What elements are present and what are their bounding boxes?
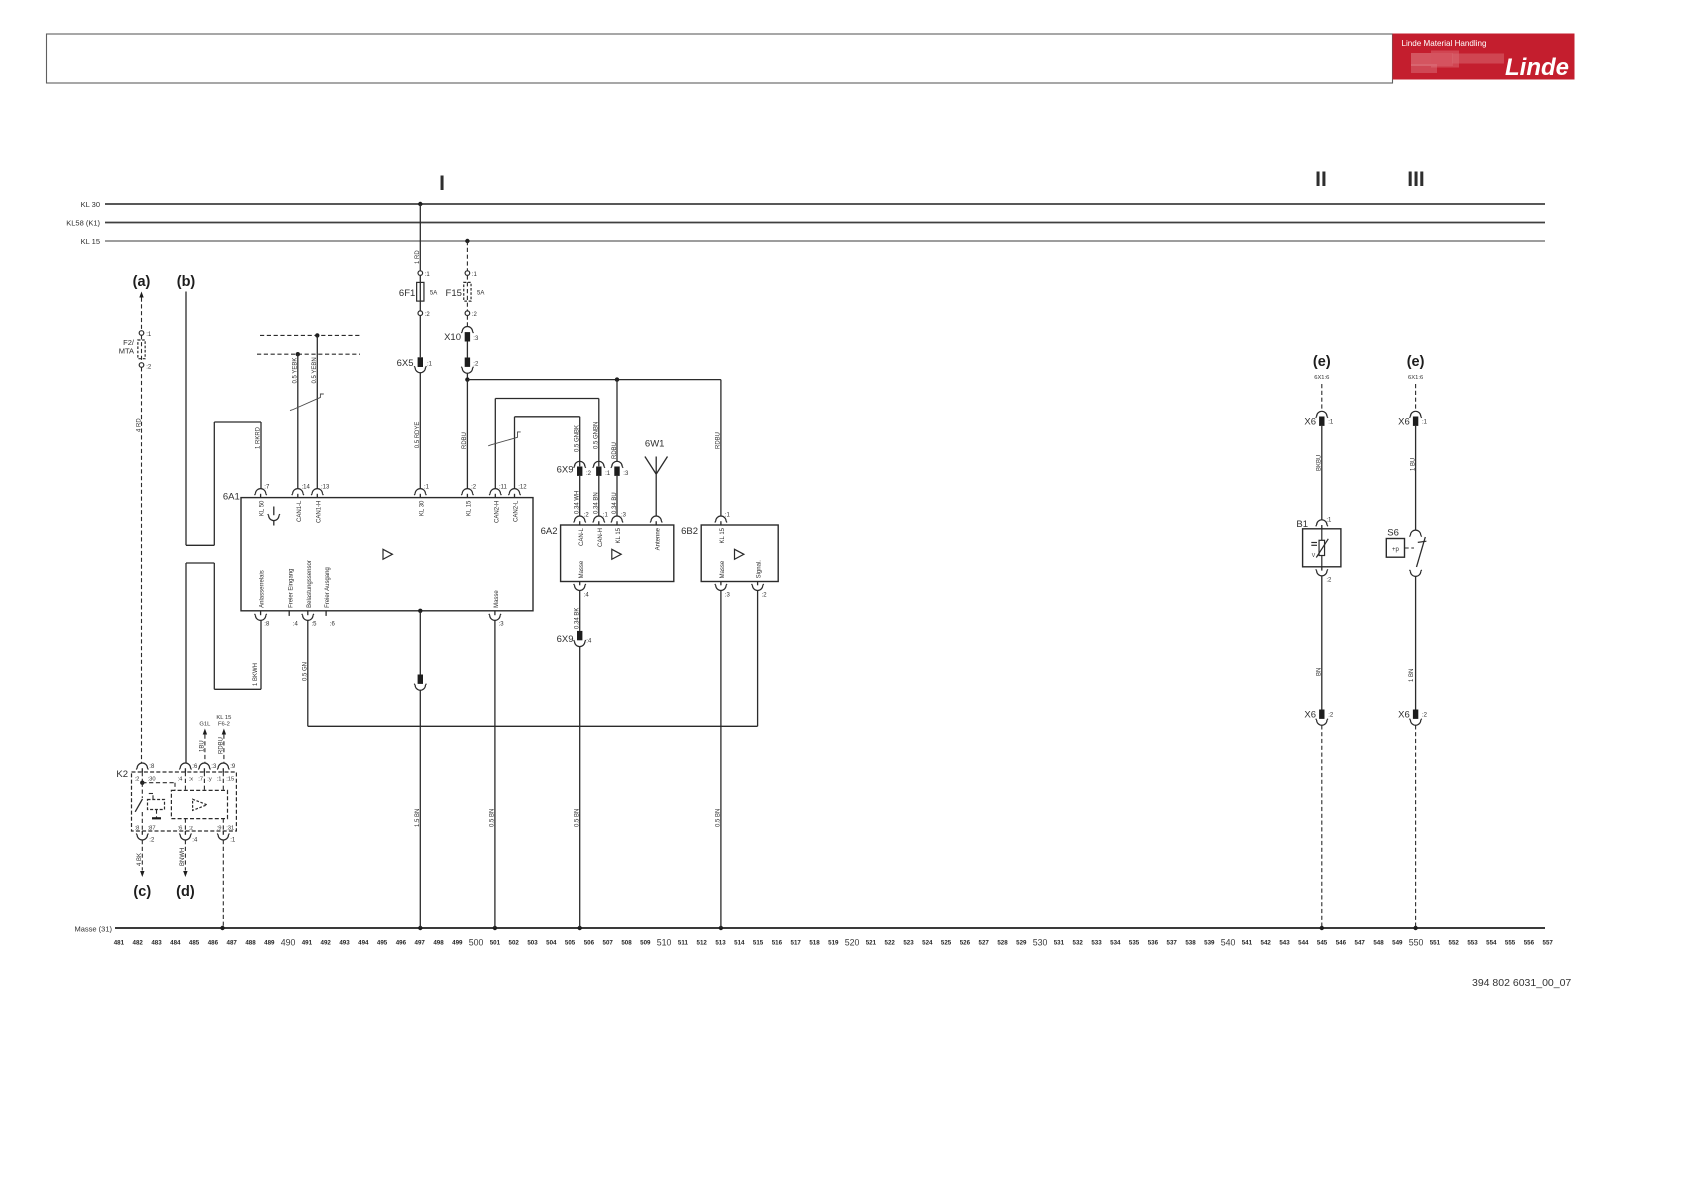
svg-text:0.34 WH: 0.34 WH — [575, 491, 581, 514]
svg-text:553: 553 — [1467, 939, 1478, 946]
wire dashed (e) to X6:1 col II — [1321, 384, 1323, 411]
svg-text:550: 550 — [1409, 937, 1424, 947]
wire (a) dashed drop to F2/MTA — [141, 298, 143, 331]
svg-text::30: :30 — [148, 777, 156, 783]
wire K2:1 to Masse bus — [222, 840, 224, 928]
svg-text:(d): (d) — [176, 884, 195, 900]
svg-text::2: :2 — [146, 364, 152, 370]
svg-text::1: :1 — [603, 512, 609, 518]
6A1 pin :12 CAN2-L — [508, 489, 520, 496]
svg-text:Anlasserrelais: Anlasserrelais — [260, 570, 266, 608]
svg-text:1 BU: 1 BU — [1410, 458, 1416, 471]
svg-text:529: 529 — [1016, 939, 1027, 946]
svg-text:506: 506 — [584, 939, 595, 946]
svg-text:(e): (e) — [1407, 354, 1425, 370]
svg-text::13: :13 — [321, 484, 330, 490]
svg-text:481: 481 — [114, 939, 125, 946]
svg-text:6X9: 6X9 — [557, 465, 574, 476]
6A2 pin :2 CAN-L — [574, 516, 586, 523]
svg-text::31: :31 — [226, 826, 234, 832]
svg-text:551: 551 — [1430, 939, 1441, 946]
connector 6X9:2 — [574, 461, 586, 468]
svg-text:517: 517 — [791, 939, 802, 946]
svg-text:4 BK: 4 BK — [137, 853, 143, 866]
wire CAN2-L 6A1:12 to 6X9:2 — [514, 417, 516, 489]
svg-text::1: :1 — [230, 838, 236, 844]
svg-text:0.34 BN: 0.34 BN — [594, 492, 600, 514]
B1 internal sensor symbol — [1321, 529, 1323, 541]
svg-text:0.5 BN: 0.5 BN — [490, 809, 496, 827]
svg-text:KL 30: KL 30 — [419, 500, 425, 516]
svg-text::4: :4 — [293, 622, 299, 628]
6A1 pin :11 CAN2-H — [489, 489, 501, 495]
svg-text:512: 512 — [697, 939, 708, 946]
svg-text:525: 525 — [941, 939, 952, 946]
6B2 pin :3 Masse — [720, 582, 722, 586]
svg-text:490: 490 — [281, 937, 296, 947]
connector 6X9:1 — [593, 461, 605, 468]
svg-text:485: 485 — [189, 939, 200, 946]
svg-text::3: :3 — [211, 764, 217, 770]
6B2 pin :1 KL 15 — [715, 516, 727, 523]
svg-text:1 BN: 1 BN — [1409, 669, 1415, 682]
svg-text:1 BKWH: 1 BKWH — [253, 663, 259, 686]
svg-text:II: II — [1315, 168, 1327, 191]
svg-text:557: 557 — [1543, 939, 1554, 946]
K2 pin :1 bottom — [222, 831, 224, 835]
K2 amplifier block — [171, 790, 227, 818]
svg-text:I: I — [439, 172, 445, 195]
svg-text::5: :5 — [312, 622, 318, 628]
wire 4 RD dashed from F2/MTA to K2:8 — [141, 367, 143, 763]
K2 relay contact — [141, 783, 143, 798]
svg-text:1 RKRD: 1 RKRD — [256, 426, 262, 449]
svg-text:Antenne: Antenne — [655, 527, 661, 550]
svg-text:539: 539 — [1204, 939, 1215, 946]
net KL 30 bus — [105, 203, 1545, 205]
svg-text:521: 521 — [866, 939, 877, 946]
svg-text:Freier Eingang: Freier Eingang — [288, 569, 294, 608]
svg-text:CAN-L: CAN-L — [579, 527, 585, 546]
svg-text:6X1:6: 6X1:6 — [1314, 375, 1329, 381]
svg-text::6: :6 — [192, 764, 198, 770]
net Masse (31) bus — [115, 927, 1545, 929]
svg-text::1: :1 — [217, 777, 222, 783]
svg-text:528: 528 — [997, 939, 1008, 946]
svg-text::2: :2 — [135, 777, 140, 783]
svg-text::2: :2 — [1422, 713, 1428, 719]
twisted pair mark CAN1 — [290, 394, 324, 411]
wire CAN2-H 6A1:11 to 6X9:1 — [494, 399, 496, 489]
svg-text:6X1:6: 6X1:6 — [1408, 375, 1423, 381]
svg-text:0.5 BN: 0.5 BN — [716, 809, 722, 827]
svg-text::2: :2 — [762, 592, 768, 598]
svg-text::2: :2 — [1328, 713, 1334, 719]
svg-text::1: :1 — [424, 484, 430, 490]
wire 1 BKWH from 6A1:8 to K2:6 — [260, 620, 262, 689]
svg-text:556: 556 — [1524, 939, 1535, 946]
svg-text:514: 514 — [734, 939, 745, 946]
svg-text::1: :1 — [725, 512, 731, 518]
svg-text:KL 15: KL 15 — [467, 500, 473, 516]
wire 1 RKRD — [260, 422, 262, 489]
wire 0.5 GN 6A1:5 to 6B2:2 — [307, 620, 309, 726]
svg-text:Belastungssensor: Belastungssensor — [307, 560, 313, 608]
node KL15 distribution junction — [465, 377, 469, 381]
K2 pin :9 — [217, 763, 229, 770]
6A1 KL50 internal switch symbol — [273, 507, 275, 516]
svg-text::12: :12 — [518, 484, 527, 490]
connector X6:1 col III — [1410, 411, 1422, 418]
K2 pin :3 — [198, 763, 210, 769]
svg-text:537: 537 — [1167, 939, 1178, 946]
wire RDBU to 6A1:2 — [466, 380, 468, 489]
svg-text:0.5 BN: 0.5 BN — [575, 809, 581, 827]
K2 pin :6 — [179, 763, 191, 769]
svg-text:KL 30: KL 30 — [81, 200, 100, 209]
svg-text:0.34 BU: 0.34 BU — [612, 492, 618, 514]
svg-text:KL 15: KL 15 — [216, 715, 231, 721]
wire 0.34 BK 6A2:4 to 6X9:4 — [579, 591, 581, 631]
svg-text:543: 543 — [1279, 939, 1290, 946]
K2 pin :8 — [136, 763, 148, 769]
svg-text:III: III — [1407, 168, 1425, 191]
svg-text:X6: X6 — [1398, 710, 1410, 721]
svg-text:6X5: 6X5 — [397, 358, 414, 369]
wire 1.5 BN 6A1 to Masse bus — [419, 611, 421, 675]
svg-text::3: :3 — [473, 336, 479, 342]
svg-text:MTA: MTA — [119, 347, 134, 356]
svg-text::87: :87 — [148, 826, 156, 832]
svg-text::1: :1 — [425, 272, 431, 278]
svg-text:501: 501 — [490, 939, 501, 946]
svg-text:507: 507 — [603, 939, 614, 946]
svg-text:515: 515 — [753, 939, 764, 946]
svg-text:K2: K2 — [116, 769, 128, 780]
svg-text:499: 499 — [452, 939, 463, 946]
svg-text::3: :3 — [621, 512, 627, 518]
wire (a) arrow — [139, 292, 143, 298]
svg-text:510: 510 — [657, 937, 672, 947]
svg-text:488: 488 — [245, 939, 256, 946]
svg-text:+p: +p — [1392, 547, 1400, 553]
svg-text::1: :1 — [605, 471, 611, 477]
svg-text:BN: BN — [1317, 668, 1323, 676]
wire 6F1 to 6X5 — [419, 316, 421, 358]
Linde logo block — [1393, 34, 1575, 82]
svg-text::11: :11 — [499, 484, 508, 490]
svg-text:520: 520 — [845, 937, 860, 947]
svg-text:1.5 BN: 1.5 BN — [415, 809, 421, 827]
svg-text::2: :2 — [471, 484, 477, 490]
svg-text:(c): (c) — [133, 884, 151, 900]
svg-text:492: 492 — [321, 939, 332, 946]
wire 1 BU X6 to S6 — [1415, 426, 1417, 530]
svg-text:6A2: 6A2 — [541, 526, 558, 537]
svg-text:CAN1-H: CAN1-H — [316, 501, 322, 523]
svg-text:X10: X10 — [444, 332, 461, 343]
svg-text::4: :4 — [586, 639, 592, 645]
wire BN B1 to X6:2 — [1321, 576, 1323, 710]
svg-text:0.5 GNBN: 0.5 GNBN — [594, 422, 600, 449]
net KL58 (K1) bus — [105, 222, 1545, 224]
svg-text::2: :2 — [149, 838, 155, 844]
svg-text:X6: X6 — [1398, 417, 1410, 428]
svg-text:1BU: 1BU — [200, 740, 206, 752]
svg-text:Signal.: Signal. — [757, 560, 763, 579]
fuse 6F1 5A — [399, 271, 437, 318]
fuse F2/MTA — [119, 331, 152, 371]
svg-text::4: :4 — [584, 592, 590, 598]
svg-text:548: 548 — [1373, 939, 1384, 946]
svg-text:0.5 YEBK: 0.5 YEBK — [293, 358, 299, 384]
svg-text::1: :1 — [1326, 518, 1332, 524]
svg-text:(e): (e) — [1313, 354, 1331, 370]
fuse F15 5A (dashed) — [446, 271, 485, 318]
svg-text:KL58 (K1): KL58 (K1) — [66, 219, 100, 228]
wire KL15 to F15 dashed — [466, 241, 468, 271]
svg-text:509: 509 — [640, 939, 651, 946]
wire dashed (e) to X6:1 col III — [1415, 384, 1417, 411]
svg-text::8: :8 — [149, 764, 155, 770]
wire 0.5 BN 6X9:4 to Masse bus — [579, 647, 581, 928]
svg-text:495: 495 — [377, 939, 388, 946]
svg-text:RDBU: RDBU — [462, 432, 468, 449]
svg-text::2: :2 — [1326, 578, 1332, 584]
6A2 pin Antenne — [650, 516, 662, 523]
svg-text:544: 544 — [1298, 939, 1309, 946]
wire 0.5 BN 6A1:3 to Masse bus — [494, 620, 496, 928]
svg-text:Linde: Linde — [1505, 54, 1569, 81]
wire 0.5 RDYE to 6A1:1 — [419, 373, 421, 489]
svg-text:0.5 YEBN: 0.5 YEBN — [312, 357, 318, 383]
svg-text:554: 554 — [1486, 939, 1497, 946]
svg-text:527: 527 — [979, 939, 990, 946]
svg-text:Masse: Masse — [579, 560, 585, 578]
svg-text:500: 500 — [469, 937, 484, 947]
svg-text::1: :1 — [1422, 420, 1428, 426]
amplifier symbol 6A2 — [612, 549, 621, 559]
svg-text:S6: S6 — [1387, 528, 1399, 539]
svg-text:538: 538 — [1185, 939, 1196, 946]
svg-text::15: :15 — [226, 777, 234, 783]
svg-text:RDBU: RDBU — [219, 737, 225, 754]
svg-text:5A: 5A — [477, 291, 484, 297]
svg-text::3: :3 — [623, 471, 629, 477]
svg-text:496: 496 — [396, 939, 407, 946]
svg-text:519: 519 — [828, 939, 839, 946]
svg-text:0.34 BK: 0.34 BK — [575, 608, 581, 629]
6A1 pin :4 Freier Eingang — [288, 611, 290, 616]
6A1 pin :14 CAN1-L — [292, 489, 304, 495]
svg-text:552: 552 — [1449, 939, 1460, 946]
svg-text:0.5 GNBK: 0.5 GNBK — [575, 425, 581, 452]
wire 0.5 BN 6B2:3 to Masse bus — [720, 591, 722, 928]
wire RDBU horizontal run — [467, 379, 721, 381]
svg-text:6A1: 6A1 — [223, 492, 240, 503]
svg-text::3: :3 — [499, 622, 505, 628]
svg-text:0.5 RDYE: 0.5 RDYE — [415, 422, 421, 449]
wire 0.5 YEBN CAN1-H to 6A1:13 — [315, 333, 319, 337]
wire (b) to 6A1:7 (1 RKRD) — [185, 292, 187, 546]
svg-text:Freier Ausgang: Freier Ausgang — [325, 567, 331, 608]
6A2 pin :1 CAN-H — [593, 516, 605, 523]
wire dashed X6:2 to Masse col II — [1321, 725, 1323, 928]
svg-text:BKBU: BKBU — [1317, 455, 1323, 471]
connector X6:1 col II — [1316, 411, 1328, 418]
svg-text:486: 486 — [208, 939, 219, 946]
6A1 pin :2 KL 15 — [461, 489, 473, 495]
6A1 pin :5 Belastungssensor — [307, 611, 309, 615]
svg-text:F15: F15 — [446, 288, 462, 299]
svg-text::8: :8 — [264, 622, 270, 628]
wire 0.34 BN to 6A2:1 — [598, 476, 600, 516]
6B2 pin :2 Signal — [757, 582, 759, 586]
svg-text:545: 545 — [1317, 939, 1328, 946]
svg-text:535: 535 — [1129, 939, 1140, 946]
svg-text:(a): (a) — [133, 274, 151, 290]
dashed stub bus upper (CAN1-H) — [260, 334, 360, 336]
svg-text::4: :4 — [178, 777, 184, 783]
svg-text::z: :z — [189, 826, 194, 832]
svg-text:494: 494 — [358, 939, 369, 946]
svg-text:493: 493 — [339, 939, 350, 946]
wire RDBU to 6X9:3 — [616, 380, 618, 462]
wire 0.34 BU to 6A2:3 — [616, 476, 618, 516]
svg-text:X6: X6 — [1304, 710, 1316, 721]
wire BNWH to (d) — [184, 840, 186, 871]
svg-text:(b): (b) — [177, 274, 196, 290]
svg-text::2: :2 — [472, 312, 478, 318]
amplifier symbol 6A1 — [383, 549, 392, 559]
svg-text:Linde Material Handling: Linde Material Handling — [1402, 39, 1487, 48]
K2 interior wiring — [141, 772, 143, 783]
connector 6X5:1 — [397, 357, 433, 372]
svg-text:KL 15: KL 15 — [720, 527, 726, 543]
svg-text:511: 511 — [678, 939, 689, 946]
svg-text:482: 482 — [133, 939, 144, 946]
svg-text:KL 15: KL 15 — [81, 237, 100, 246]
svg-text:532: 532 — [1073, 939, 1084, 946]
svg-text::6: :6 — [330, 622, 336, 628]
svg-text:394 802 6031_00_07: 394 802 6031_00_07 — [1472, 977, 1571, 989]
6A1 pin :13 CAN1-H — [311, 489, 323, 495]
current-path scale numbers 481-557 — [114, 937, 1554, 947]
svg-text:540: 540 — [1221, 937, 1236, 947]
svg-text:KL 50: KL 50 — [260, 500, 266, 516]
svg-text:Masse: Masse — [720, 560, 726, 578]
svg-text:505: 505 — [565, 939, 576, 946]
svg-text:487: 487 — [227, 939, 238, 946]
wire 1 RD — [419, 204, 421, 271]
svg-text::2: :2 — [473, 362, 479, 368]
twisted pair mark CAN2 — [488, 432, 521, 446]
wire BKBU X6 to B1 — [1321, 426, 1323, 520]
svg-text::7: :7 — [198, 777, 203, 783]
wire 0.5 YEBK CAN1-L to 6A1:14 — [296, 352, 300, 356]
svg-text:542: 542 — [1261, 939, 1272, 946]
wire RDBU to 6B2:1 — [720, 380, 722, 516]
svg-text:RDBU: RDBU — [612, 442, 618, 459]
svg-text::8: :8 — [135, 826, 140, 832]
svg-text::1: :1 — [427, 362, 433, 368]
svg-text:526: 526 — [960, 939, 971, 946]
svg-text:1 RD: 1 RD — [415, 250, 421, 264]
svg-text:555: 555 — [1505, 939, 1516, 946]
svg-text:0.5 GN: 0.5 GN — [303, 662, 309, 681]
svg-text::14: :14 — [302, 484, 311, 490]
svg-text::9: :9 — [230, 764, 236, 770]
svg-text:497: 497 — [415, 939, 426, 946]
svg-text:F6-2: F6-2 — [218, 722, 230, 728]
svg-text:530: 530 — [1033, 937, 1048, 947]
svg-text::4: :4 — [192, 838, 198, 844]
svg-text:484: 484 — [170, 939, 181, 946]
svg-text:V: V — [1312, 553, 1316, 559]
6A2 pin :4 Masse — [579, 582, 581, 586]
svg-text:491: 491 — [302, 939, 313, 946]
svg-text::1: :1 — [1328, 420, 1334, 426]
svg-text:518: 518 — [809, 939, 820, 946]
wire 4 BK to (c) — [141, 840, 143, 871]
svg-text:489: 489 — [264, 939, 275, 946]
connector 6X9:3 — [611, 461, 623, 468]
svg-text:546: 546 — [1336, 939, 1347, 946]
svg-text:547: 547 — [1355, 939, 1366, 946]
6A1 pin :8 Anlasserrelais — [260, 611, 262, 615]
svg-text:536: 536 — [1148, 939, 1159, 946]
svg-text:483: 483 — [151, 939, 162, 946]
svg-text:X6: X6 — [1304, 417, 1316, 428]
6A1 bottom Masse junction — [418, 609, 422, 613]
wire 1 BN S6 to X6:2 — [1415, 577, 1417, 710]
svg-text::3: :3 — [725, 592, 731, 598]
junction KL30/6F1 — [418, 202, 422, 206]
svg-text:KL 15: KL 15 — [616, 527, 622, 543]
svg-text:6B2: 6B2 — [681, 526, 698, 537]
6A1 pin :7 KL 50 — [255, 489, 267, 495]
svg-text:4 RD: 4 RD — [136, 418, 142, 432]
K2 interior terminal labels top — [135, 777, 235, 783]
6A1 pin :1 KL 30 — [414, 489, 426, 495]
amplifier symbol 6B2 — [735, 549, 744, 559]
svg-text:CAN-H: CAN-H — [598, 528, 604, 547]
svg-text:CAN2-H: CAN2-H — [494, 501, 500, 523]
svg-text:6F1: 6F1 — [399, 288, 415, 299]
svg-text:G1L: G1L — [199, 722, 211, 728]
svg-text:CAN2-L: CAN2-L — [514, 500, 520, 522]
title block frame — [47, 34, 1393, 83]
svg-text::y: :y — [207, 777, 212, 783]
svg-text:534: 534 — [1110, 939, 1121, 946]
svg-text:531: 531 — [1054, 939, 1065, 946]
net KL 15 bus — [105, 240, 1545, 242]
svg-text:498: 498 — [433, 939, 444, 946]
svg-text::x: :x — [189, 777, 194, 783]
svg-text:CAN1-L: CAN1-L — [297, 500, 303, 522]
svg-text:541: 541 — [1242, 939, 1253, 946]
dashed stub bus lower (CAN1-L) — [257, 353, 360, 355]
wire X10 to junction — [466, 373, 468, 379]
svg-text:533: 533 — [1091, 939, 1102, 946]
svg-text::7: :7 — [264, 484, 270, 490]
S6 actuator box +p — [1386, 539, 1404, 558]
wire 0.34 WH to 6A2:2 — [579, 476, 581, 516]
svg-text:BNWH: BNWH — [180, 848, 186, 866]
svg-text:6X9: 6X9 — [557, 634, 574, 645]
K2 pin :4 bottom — [184, 831, 186, 835]
K2 pin :2 bottom — [141, 831, 143, 835]
